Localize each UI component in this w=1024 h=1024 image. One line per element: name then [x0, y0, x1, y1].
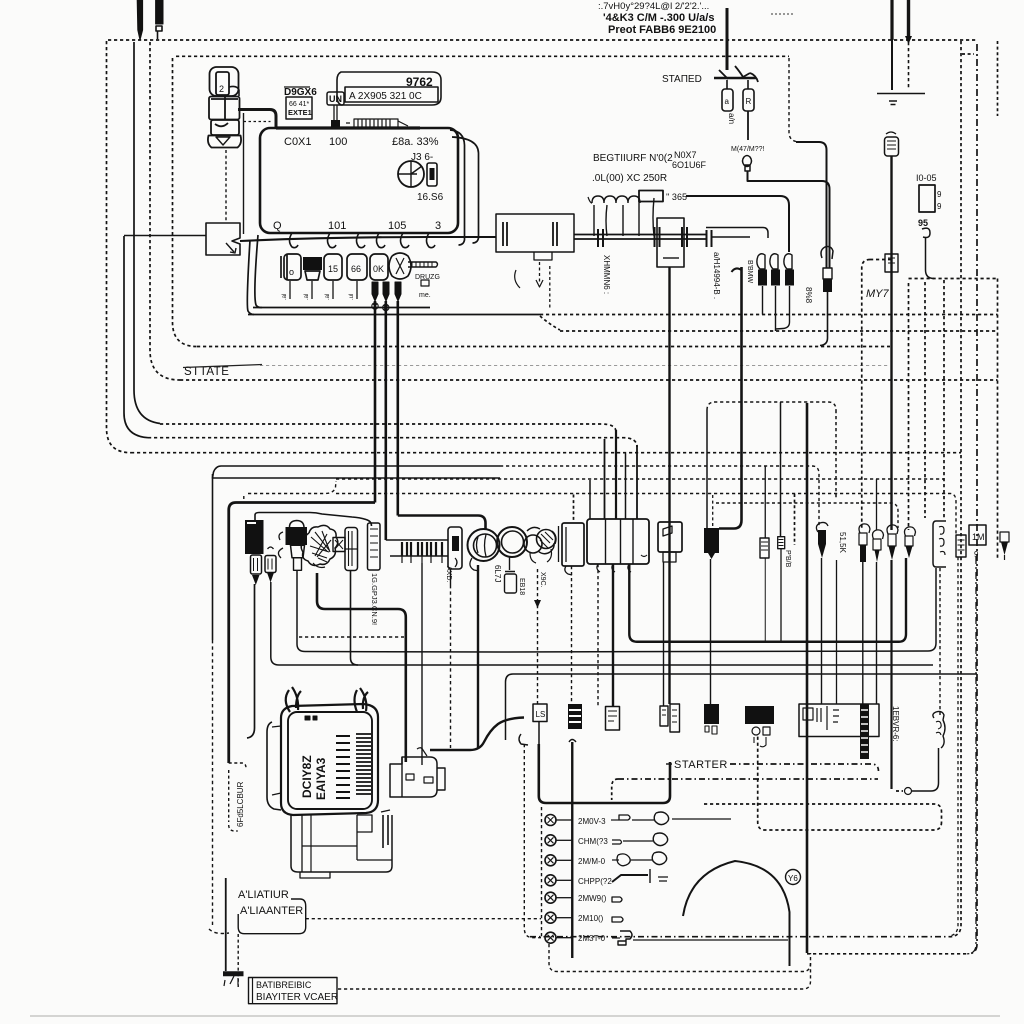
component cluster comp2 connector: [265, 556, 276, 573]
component D8GX box: [286, 97, 312, 119]
wire board bus thick x=572.25: [571, 742, 573, 958]
wire board bottom dashed: [549, 944, 811, 972]
wire box5 thick drop x=613: [612, 564, 614, 706]
wire R1 down: [762, 286, 764, 315]
wire vertical x=422 from bank to engine: [421, 563, 423, 765]
node pin hook 3: [357, 233, 366, 248]
wire STATE underline: [183, 365, 262, 368]
battery short plate marks: [889, 101, 897, 105]
wire big box left edge x=212.5: [212, 474, 214, 640]
wire thick vertical from pin A x=375: [374, 301, 377, 503]
capacitor C3 on rail: [682, 227, 687, 247]
wire dashed vertical x=944 from y278 to bracket: [943, 280, 945, 520]
wire o thick drop x=891.5: [890, 560, 892, 789]
node S hook: [922, 228, 930, 237]
wire i drop to thick bus: [764, 558, 766, 641]
node pin hook 4: [377, 233, 386, 248]
wire dashed corner x=861.75: [862, 260, 870, 530]
wire thick bar 1 top: [137, 0, 142, 40]
wire solid vertical x=134 turning to dashed y=424: [134, 42, 160, 424]
node box6 sub connector: [663, 552, 676, 562]
wire dashed vertical x=925 below S-wire: [924, 282, 926, 518]
wire 365 line to right: [686, 196, 789, 252]
component row item 1: [284, 254, 301, 280]
component distributor blob scribble: [301, 525, 338, 565]
component connector box: [206, 223, 240, 255]
lamp circle 2: [497, 527, 527, 557]
wire S connector to right bus: [748, 171, 830, 268]
svg-text:9: 9: [937, 190, 942, 199]
svg-text:'' 365: '' 365: [666, 192, 687, 202]
wire thick vertical from pin C x=397.8: [396, 301, 399, 516]
wire RIB thick drop: [890, 156, 892, 530]
component relay box 365: [639, 191, 663, 202]
fuse F2: [743, 89, 754, 111]
wire dashed drop x=573.5 into box4: [573, 495, 575, 524]
svg-text:2M0V-3: 2M0V-3: [578, 817, 606, 826]
svg-text:.al: .al: [282, 294, 288, 300]
svg-text:BIAYITER VCAER: BIAYITER VCAER: [256, 992, 338, 1003]
component ECU small rect symbol: [427, 163, 437, 186]
svg-text:a: a: [725, 97, 730, 106]
node comp1 black pin: [252, 575, 260, 585]
node black box pin: [708, 553, 715, 559]
terminal row 6: [545, 912, 556, 923]
component hook-pin n (x=876.5): [873, 530, 884, 539]
component hook-pin o on RIB wire: [887, 525, 898, 534]
component battery label box: [249, 978, 338, 1004]
svg-text:1EBVR-6:: 1EBVR-6:: [891, 706, 900, 742]
wire thick starter drop from top: [726, 8, 729, 70]
svg-text:P'B/B: P'B/B: [784, 550, 791, 568]
wire dashed vertical x=150: [150, 42, 180, 380]
wire thick long vertical x=807: [806, 403, 809, 953]
wire thick vertical from pin B x=385.8: [384, 301, 387, 540]
svg-text:2MW9(): 2MW9(): [578, 894, 607, 903]
svg-text:STAΠED: STAΠED: [662, 74, 702, 85]
svg-text:CHM(?3: CHM(?3: [578, 837, 608, 846]
resistor R2 body: [771, 270, 780, 286]
wire dashed y=954 bottom right: [807, 953, 968, 955]
wire top bus y=513 linking cluster tops: [255, 513, 372, 527]
wire dashed y=830 U return: [758, 736, 942, 830]
wire box6 drop x=663: [663, 562, 665, 706]
svg-text:9: 9: [937, 202, 942, 211]
node pin hook 1: [290, 233, 299, 248]
component LS box: [533, 704, 547, 722]
wire solid x=243.5 along ECU left: [243, 113, 245, 234]
wire diagonal jog (540,317)-(560,331): [540, 316, 560, 330]
node lamp2 lower connector EB18: [505, 557, 515, 572]
wire dashed vertical x=789 from y56 frame: [789, 58, 796, 142]
wire main pin rail y=238: [240, 237, 496, 241]
terminal row 1: [545, 815, 556, 826]
component ignition switch lower block: [211, 120, 239, 135]
wire dashed horizontal y=364.5 going right (STATE line continues): [260, 365, 890, 367]
wire dashed horizontal y=278.5 right side: [909, 278, 998, 280]
wire ECU wrap inner: [450, 130, 465, 245]
node black tapered pin C: [395, 282, 401, 301]
node double bar left inside: [503, 222, 507, 246]
node starter junction arrows: [714, 77, 756, 79]
wire left dashed border vertical x=106: [107, 41, 132, 453]
svg-text:101: 101: [328, 220, 346, 232]
svg-text:EB18: EB18: [518, 578, 525, 595]
svg-text:X9C.: X9C.: [539, 572, 546, 588]
wire bracket drop dashed: [939, 568, 941, 715]
svg-text:16.S6: 16.S6: [417, 192, 444, 203]
label circled 16: [786, 870, 801, 885]
resistor R1 hook: [757, 254, 765, 269]
component engine inner panel: [288, 712, 372, 809]
wire dashed vertical x=908 from y278: [908, 283, 910, 530]
junction x-node 1: [372, 303, 378, 309]
wire board left dashed edge: [541, 807, 543, 938]
svg-text:51,5K: 51,5K: [838, 532, 847, 554]
svg-text:EAIYA3: EAIYA3: [314, 757, 328, 800]
wire dashed frame bottom y=452.7: [131, 452, 961, 454]
svg-text:M(47/M??!: M(47/M??!: [731, 146, 765, 153]
capacitor C1 on rail: [598, 229, 603, 247]
component hook-pin p (x=909): [905, 527, 916, 536]
svg-text:.al: .al: [304, 294, 310, 300]
svg-text:BATIBREIBIC: BATIBREIBIC: [256, 980, 312, 990]
svg-text::.7vH0y°29?4L@l 2/'2'2.'...: :.7vH0y°29?4L@l 2/'2'2.'...: [598, 1, 709, 12]
wire n drop: [876, 562, 878, 704]
svg-text:BEGTIIURF N'0(2: BEGTIIURF N'0(2: [593, 153, 673, 164]
wire dash-dot y=937 bottom: [530, 936, 950, 938]
wire ECU wrap outer: [452, 137, 479, 243]
wire dashed vertical x=997.5 lower: [997, 279, 999, 561]
resistor R3 body: [785, 270, 794, 286]
component ignition switch upper housing: [210, 67, 239, 96]
component engine side tab: [357, 815, 372, 832]
wire stub pin 1 with label: [289, 281, 291, 299]
wire dashed vertical x=794.5 short: [794, 494, 796, 545]
component hook-pin m: [859, 524, 870, 533]
capacitor C2 on rail: [655, 227, 660, 247]
wire solid vertical x=122.5 corner to dashed y=437.7: [124, 236, 148, 438]
wire n feed from y=479: [876, 479, 878, 530]
component engine outer shell: [286, 687, 301, 712]
wire a down: [450, 569, 452, 585]
wire dashed battery output y=989: [338, 962, 811, 989]
svg-text:UN: UN: [329, 94, 342, 104]
wire UN stem: [334, 105, 337, 120]
wire thick bus y=609 from squiggle: [317, 573, 406, 762]
node comp1 connector below: [251, 555, 262, 574]
wire box5 dashed drop x=598: [597, 564, 599, 706]
wire dashed horizontal y=380: [180, 379, 998, 381]
component lower distribution box dashed: [707, 402, 836, 410]
wire DUB down to y=346: [820, 292, 828, 346]
wire right border dashed vertical x=961: [950, 41, 961, 937]
component engine oil pan: [291, 815, 392, 872]
wire thick y=513.5 to circle lamp 1: [398, 516, 486, 530]
wire dashed horizontal y=314.5 from ECU left: [248, 314, 540, 316]
wire short dashed vertical x=998 top right: [997, 41, 999, 116]
node bank pin tips: [402, 556, 442, 563]
capacitor C4 end of rail: [707, 230, 712, 247]
junction x-node 2: [383, 304, 389, 310]
node engine top marks: [305, 716, 317, 720]
wire dashed horizontal y=503: [716, 503, 898, 528]
component striped coil FWE: [860, 704, 869, 759]
svg-text:LS: LS: [536, 710, 546, 719]
wire below box detail: [534, 252, 552, 260]
component mid junction box: [496, 214, 574, 252]
component RIB connector: [885, 137, 899, 156]
component DUB connector hook: [821, 247, 833, 260]
wire right border dash-dot vertical x=977: [968, 44, 977, 954]
wire below fuse F2: [747, 111, 749, 140]
wire coil pin 3: [622, 205, 624, 236]
terminal row 5: [545, 892, 556, 903]
wire dashed horizontal y=331: [560, 330, 998, 332]
component UN connector: [327, 92, 344, 105]
wire box5 drop x=629 corner right thick bus y=641.75: [629, 558, 906, 642]
component row item 6 key switch: [389, 253, 411, 279]
svg-text:B'BMW: B'BMW: [746, 260, 753, 284]
wire stub pin 3 with label: [332, 281, 334, 299]
wire l vertical x=836.5: [836, 560, 838, 704]
svg-text:6Fd5LCBUR: 6Fd5LCBUR: [236, 781, 245, 827]
component engine barcode band B: [336, 736, 350, 798]
node black tapered pin B: [383, 282, 389, 301]
node box5 pin hooks: [597, 564, 631, 572]
svg-text:A'LIAANTER: A'LIAANTER: [240, 905, 303, 917]
svg-text:2: 2: [219, 84, 224, 94]
component black relay 1: [704, 704, 719, 724]
wire dashed below switch x=226: [225, 150, 227, 221]
terminal row 7: [545, 932, 556, 943]
wire dashed alternator output y=918.7: [306, 918, 541, 920]
terminal row 3: [545, 855, 556, 866]
svg-text:1G.GPJ3.CN.9!: 1G.GPJ3.CN.9!: [370, 573, 379, 625]
wire R3 down and corner left: [776, 286, 790, 329]
wire dashed link y=637: [299, 636, 404, 638]
node bank pins: [402, 542, 442, 556]
terminal row 2: [545, 835, 556, 846]
svg-text:95: 95: [918, 218, 928, 228]
component inner label box A 2X905 321 0C: [345, 87, 438, 102]
component cluster comp1 black relay: [245, 520, 264, 554]
svg-text:CHPP(?2: CHPP(?2: [578, 877, 612, 886]
component striped element6: [368, 523, 381, 570]
svg-text:2M3T-0: 2M3T-0: [578, 934, 606, 943]
svg-text:I0-05: I0-05: [916, 173, 937, 183]
wire dash-dot y=764 from STARTER: [730, 764, 879, 771]
component row item 4: [347, 254, 367, 280]
component connector bank outline: [386, 540, 448, 556]
component alternator label box outline: [238, 899, 306, 934]
wire lamp1 thick drop x=478: [477, 565, 479, 748]
resistor R2 hook: [770, 254, 778, 269]
wire battery lead 1: [890, 0, 893, 40]
component coil JUUUUNE: [592, 196, 640, 203]
wire box4 dashed drop x=571.5: [571, 566, 573, 704]
wire rail loop above capacitor C4: [706, 228, 768, 239]
svg-text:N0X7: N0X7: [674, 150, 697, 160]
component bracket q (934-948,520-568): [933, 521, 946, 567]
wire drop x=590 into box5: [589, 480, 591, 519]
wire element5 drop x=350.5 to y=665: [351, 571, 359, 666]
component DUB black body: [823, 279, 832, 292]
wire dashed horizontal y=437.7 ending corner down x=637: [148, 438, 637, 447]
svg-text:6O1U6F: 6O1U6F: [672, 160, 707, 170]
wire dashed y=479: [336, 478, 944, 480]
wire second dashed frame horizontal y=56: [176, 55, 789, 57]
component box6: [658, 522, 682, 552]
wire comp3 drop and bus y=645-651: [297, 568, 936, 652]
svg-text:.0L(00) XC 250R: .0L(00) XC 250R: [592, 173, 667, 184]
component M boxes: [660, 706, 668, 726]
wire battery feed x=225.75: [225, 878, 227, 971]
component partial pin far right: [1000, 532, 1009, 542]
lamp circle 1: [468, 529, 500, 561]
svg-text:Q: Q: [273, 220, 282, 232]
svg-text:DCIY8Z: DCIY8Z: [300, 755, 314, 798]
wire big arc: [683, 861, 790, 966]
component engine striped band C: [356, 734, 371, 794]
wire solid horizontal y=307.5 from ECU left: [253, 307, 430, 309]
wire comp a drop detail: [247, 584, 255, 738]
wire relay drop thick x=669.5 from y=267: [668, 267, 670, 704]
node lamp1 lower connector: [470, 558, 479, 571]
component striped box j: [778, 537, 785, 549]
wire ECU thick top edge: [276, 126, 420, 129]
component label box 9762: [337, 72, 441, 105]
component starter motor box (799-879): [799, 704, 879, 737]
wire coil pin 5: [653, 198, 654, 236]
wire drop x=625.5 into box5: [625, 454, 627, 520]
node black square below UN: [331, 120, 340, 128]
svg-text:Y6: Y6: [788, 874, 798, 883]
svg-text:A 2X905 321 0C: A 2X905 321 0C: [349, 91, 422, 102]
wire k drop x=821: [821, 558, 823, 704]
svg-text:C0X1: C0X1: [284, 136, 312, 148]
wire 1M dash-dot drop to y=954: [967, 557, 976, 954]
wire dash-dot y=779: [618, 778, 878, 780]
wire elbow thick from engine to LS: [430, 718, 524, 751]
wire thick candy top x=741.5: [732, 268, 742, 272]
wire coil pin 4: [638, 198, 640, 236]
component striped coil (568-582): [568, 704, 582, 729]
component connector box on RIB wire: [885, 254, 898, 272]
wire drop x=604.5 into box5: [604, 439, 606, 519]
wire squiggle dashed drop x=537.5: [537, 569, 539, 704]
component 6E box: [606, 707, 620, 731]
wire LS stem thick to y=803: [538, 722, 540, 745]
wire i feed from y=466: [764, 466, 766, 538]
wire short dashed tick top right y=54: [962, 53, 974, 55]
wire small dashes right of line2: [771, 13, 795, 15]
wire thick elbow into black box: [719, 267, 742, 529]
svg-text:a/H14994-B .: a/H14994-B .: [712, 252, 721, 299]
wire dashed frame horizontal y=346.5: [197, 346, 890, 348]
wire bus y=674 from L corner x=505.5: [506, 674, 978, 740]
resistor R1 body: [758, 270, 767, 286]
component row item 2 black relay: [303, 257, 322, 270]
node connector under bar2: [156, 26, 162, 39]
wire thick from switch to ECU top: [238, 110, 276, 129]
svg-text:A'LIATIUR: A'LIATIUR: [238, 889, 289, 901]
wire dashed arrow below box: [539, 262, 541, 284]
component small box element4: [333, 538, 345, 552]
component ECU main box: [260, 128, 458, 233]
svg-text:6L7J: 6L7J: [493, 565, 502, 582]
svg-text:.al: .al: [325, 294, 331, 300]
wire dashed drop x=524 to terminal board: [524, 744, 541, 938]
svg-text:2M10(): 2M10(): [578, 914, 604, 923]
svg-text:.ul: .ul: [349, 294, 355, 300]
node comp2 black pin: [267, 573, 274, 583]
component striped connector i: [760, 538, 769, 558]
component row item 5: [370, 254, 388, 280]
node double bar right inside: [553, 222, 557, 246]
component S connector: [743, 156, 752, 172]
svg-text:STARTER: STARTER: [674, 759, 728, 771]
fuse F1: [722, 89, 733, 111]
wire dashed loop y=791 with bulb: [896, 790, 903, 792]
component cluster comp3 ignition coil: [290, 521, 305, 528]
component relay box on rail (657-684): [657, 218, 684, 267]
svg-text:£8a. 33%: £8a. 33%: [392, 136, 439, 148]
svg-text:105: 105: [388, 220, 406, 232]
wire black box drop x=710.5: [710, 559, 712, 704]
svg-text:2M/M-0: 2M/M-0: [578, 857, 606, 866]
component row item 3: [324, 254, 342, 280]
component striped connector on ECU top: [346, 119, 408, 128]
wire coil pin 1: [593, 205, 595, 236]
svg-text:'4&K3 C/M -.300 U/a/s: '4&K3 C/M -.300 U/a/s: [603, 12, 714, 24]
wire thick corner into x=827 drop: [796, 142, 827, 268]
wire S drop x=925.5: [926, 237, 935, 279]
svg-text:EXTE1: EXTE1: [288, 108, 312, 117]
svg-text:o: o: [289, 267, 294, 277]
node pin hook 6: [427, 233, 436, 248]
svg-text:0K: 0K: [373, 264, 384, 274]
component box5 wide relay: [587, 519, 649, 564]
component 10.05 box: [919, 185, 935, 212]
wire battery lead 2 solid top: [907, 0, 910, 40]
svg-text:3: 3: [435, 220, 441, 232]
component engine P bar: [383, 815, 388, 848]
component ignition switch middle block: [209, 97, 240, 120]
component solenoid stepped block: [390, 757, 437, 797]
wire thick L from pin A to engine x=228.75: [229, 503, 375, 764]
svg-text:8%8: 8%8: [804, 287, 813, 304]
wire dashed y=804: [704, 804, 942, 822]
wire m drop: [862, 562, 864, 704]
svg-text:100: 100: [329, 136, 347, 148]
component tall element5: [345, 528, 358, 571]
wire big box top edge y=466: [213, 466, 501, 478]
wire second dashed frame vertical x=172.5: [173, 58, 198, 347]
svg-text:a/n: a/n: [727, 113, 736, 124]
node pin hook 2: [328, 233, 337, 248]
node black tapered pin A: [372, 282, 378, 301]
node curl from ECU bottom-left pin to y=307.5: [255, 235, 262, 308]
svg-text:15: 15: [328, 264, 338, 274]
node relay2 terminals: [752, 727, 760, 735]
wire box divider x=780.5: [780, 402, 782, 536]
component connector cluster (933-946,715-748): [933, 711, 945, 748]
svg-text:MY7: MY7: [866, 288, 890, 300]
terminal row 4: [545, 875, 556, 886]
component squiggle horn: [524, 535, 542, 553]
svg-text:66 41*: 66 41*: [289, 101, 310, 108]
